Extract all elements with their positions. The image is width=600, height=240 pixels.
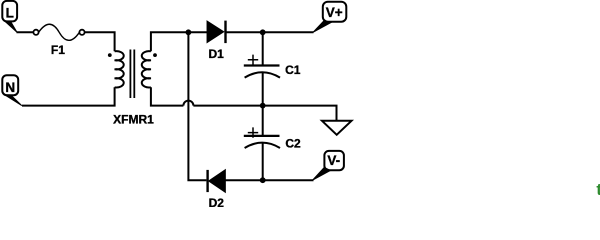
capacitor C2 [244,106,301,181]
left vertical node wire [188,32,206,180]
diode D1 [207,21,225,61]
core [130,50,134,99]
wire fuse to primary [85,32,115,51]
node junction C1 top [260,29,266,35]
svg-text:C1: C1 [285,63,301,77]
wire D2 to V- [225,179,313,181]
svg-text:V-: V- [327,153,340,168]
svg-text:D1: D1 [209,47,225,61]
fuse F1 [33,24,84,57]
terminal N [2,75,22,105]
transformer XFMR1 [108,50,157,127]
wire L to fuse [17,31,34,33]
terminal L [2,1,17,32]
mid rail to ground [193,106,336,121]
terminal V- [313,151,344,180]
svg-text:XFMR1: XFMR1 [113,113,154,127]
svg-text:D2: D2 [209,196,225,207]
svg-text:L: L [6,5,14,20]
wire D1 to V+ [226,31,314,33]
diode D2 [208,170,226,210]
mid rail from secondary bottom [151,87,184,105]
wire node to D1 [188,31,207,33]
capacitor C1 [244,32,301,105]
secondary winding [142,51,151,87]
primary winding [115,51,124,87]
terminal V+ [313,2,346,33]
wire primary bottom [22,87,115,105]
node junction C1/C2 mid [260,103,266,109]
svg-text:F1: F1 [51,43,65,57]
wire secondary top to node [151,32,189,51]
svg-text:C2: C2 [285,136,301,150]
wire hop over vertical [183,101,193,106]
node junction C2 bottom [260,177,266,183]
C2 polarity plus [248,127,258,137]
svg-text:V+: V+ [326,5,343,20]
svg-text:t: t [596,181,600,199]
C1 polarity plus [248,55,258,65]
node junction top [186,29,192,35]
ground [322,121,352,135]
secondary dot [153,53,157,57]
svg-text:N: N [5,80,15,95]
primary dot [108,53,112,57]
